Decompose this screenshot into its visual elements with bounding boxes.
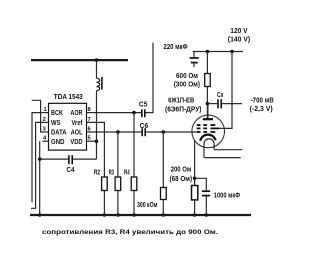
svg-text:(140 V): (140 V) [228,36,250,43]
svg-text:R2: R2 [94,170,100,177]
svg-text:GND: GND [51,139,65,146]
ground bus [30,214,251,216]
wire Cx output stub [222,103,242,105]
svg-text:VDD: VDD [70,139,82,146]
wire heater stub upper [214,149,242,151]
pin 2 WS stub [43,121,49,123]
svg-text:200 Ом: 200 Ом [171,166,192,173]
wire C6 to tube grid1 [146,131,197,133]
svg-text:1000 мкФ: 1000 мкФ [214,193,240,200]
pin 8 AOR line [87,112,142,114]
svg-text:Vref: Vref [72,120,84,127]
svg-text:120 V: 120 V [230,28,248,35]
inductor L1 choke [97,78,100,90]
svg-text:600 Ом: 600 Ом [176,73,198,80]
capacitor C6 [141,128,143,136]
pin 3 DATA stub [43,131,49,133]
pin 1 BCK stub [43,112,49,114]
svg-text:(-2,3 V): (-2,3 V) [250,106,273,113]
wire supply bus top-left [31,59,128,61]
node junction VDD pin5 [95,139,99,143]
IC U1 TDA1543 body [49,103,87,150]
node junction bus-choke [95,58,99,62]
tube grid g3 row [197,124,216,126]
tube anode [203,118,213,120]
wire BCK net [32,113,43,203]
svg-text:R4: R4 [124,170,130,177]
wire C4 to GND line [40,158,69,160]
svg-text:DATA: DATA [51,130,67,137]
capacitor C5 [141,109,143,117]
svg-text:WS: WS [51,120,61,127]
resistor R4 [133,113,135,177]
resistor 300k grid leak [162,132,164,188]
svg-text:6Ж1П-ЕВ: 6Ж1П-ЕВ [168,98,194,105]
node junction anode-Cx [206,102,210,106]
resistor R2 [102,177,108,191]
pin 4 GND stub [43,140,49,142]
resistor R3 [117,132,119,177]
svg-text:(68 Ом): (68 Ом) [170,176,193,183]
svg-text:C4: C4 [67,167,75,174]
wire cathode lead [194,141,196,179]
wire heater stub lower [204,157,241,159]
wire GND net to ground bus [39,141,41,215]
capacitor 1000uF [202,190,210,192]
tube grid g2 row [197,127,219,129]
node junction rail-600ohm [206,50,210,54]
wire C5 to up stub [146,43,153,113]
node junction grid-300k [162,130,166,134]
svg-text:TDA 1543: TDA 1543 [54,94,83,101]
svg-text:(6Э6П-ДРУ): (6Э6П-ДРУ) [165,106,202,113]
wire DATA net [32,100,43,132]
wire g2 to rail [219,52,232,129]
resistor 200 Ohm cathode [194,178,196,185]
svg-text:-700 мВ: -700 мВ [251,98,274,105]
svg-text:C6: C6 [140,123,149,130]
svg-text:2: 2 [43,117,46,123]
node junction AOR-R4 [132,111,136,115]
capacitor C4 [68,155,70,164]
pin 7 Vref line [87,122,105,177]
node junction GND-bus [38,213,42,217]
wire bus to choke [96,60,98,78]
svg-text:BCK: BCK [51,110,63,117]
svg-text:7: 7 [88,117,91,123]
resistor 600 Ohm anode load [206,52,208,74]
node junction cathode RC [193,177,197,181]
svg-text:220 мкФ: 220 мкФ [164,44,188,51]
pin 5 VDD stub [87,140,97,142]
wire choke to VDD pin5 [96,91,98,160]
node junction rail-g2 [230,50,234,54]
capacitor 220uF [193,52,195,58]
svg-text:R3: R3 [109,170,114,177]
tube cathode [200,135,215,141]
wire cathode node to 1000uF [195,178,207,190]
tube heater [204,139,214,158]
svg-text:C5: C5 [139,102,148,109]
tube V1 envelope [192,115,225,148]
node junction AOL-R3 [116,130,120,134]
tube grid g1 row [197,131,216,133]
wire +120V rail [193,51,243,53]
node junction GND-C4 [38,157,42,161]
svg-text:AOL: AOL [71,130,83,137]
svg-text:Cx: Cx [217,92,224,99]
svg-text:(300 Ом): (300 Ом) [174,81,200,88]
svg-text:300 кОм: 300 кОм [137,202,158,209]
svg-text:сопротивления R3, R4 увеличить: сопротивления R3, R4 увеличить до 900 Ом… [42,229,218,236]
capacitor Cx [207,103,217,105]
svg-text:AOR: AOR [70,110,82,117]
wire WS net [31,122,43,208]
wire VDD down to C4 [73,158,97,160]
pin 6 AOL line [87,131,142,133]
